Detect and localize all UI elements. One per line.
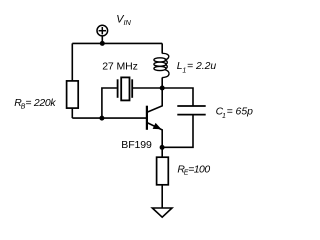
wire crystal right to mid rail: [133, 87, 162, 89]
supply symbol V+ circle: [97, 25, 108, 36]
svg-text:27 MHz: 27 MHz: [102, 61, 138, 73]
wire RE bottom lead: [161, 185, 163, 208]
node junction dot at supply on top rail: [100, 41, 105, 46]
svg-text:BF199: BF199: [121, 139, 152, 151]
label VIN: [116, 13, 131, 27]
transistor Q1 base bar: [146, 106, 148, 130]
wire base rail: [72, 117, 147, 119]
label RB value: [14, 98, 56, 110]
label RE value: [177, 164, 210, 176]
crystal X1 right plate: [131, 79, 133, 98]
node junction dot base: [99, 116, 104, 121]
wire mid rail to capacitor: [162, 88, 193, 106]
transistor Q1 emitter diagonal with arrow: [148, 123, 163, 147]
transistor Q1 collector diagonal: [148, 88, 163, 112]
label L1 value: [177, 61, 217, 74]
inductor L1 bottom lead: [161, 78, 163, 89]
inductor L1 top lead: [161, 43, 163, 53]
wire capacitor bottom to emitter node: [162, 115, 193, 148]
crystal X1 body rectangle: [121, 77, 129, 100]
wire RB bottom lead: [71, 108, 73, 118]
wire left vertical to RB: [71, 43, 73, 81]
supply symbol V+ lead: [101, 36, 103, 43]
svg-text:IN: IN: [124, 18, 132, 27]
supply symbol plus sign: [99, 27, 106, 34]
capacitor C1 top plate: [177, 105, 205, 107]
ground symbol: [152, 208, 172, 217]
wire emitter node to RE: [161, 147, 163, 157]
node junction dot emitter: [160, 145, 165, 150]
svg-text:= 220k: = 220k: [25, 98, 56, 109]
resistor R1 body (RB): [67, 81, 79, 108]
svg-text:= 2.2u: = 2.2u: [187, 61, 216, 72]
label C1 value: [216, 107, 254, 121]
svg-text:=100: =100: [188, 164, 210, 175]
svg-text:1: 1: [222, 113, 226, 120]
wire top rail: [72, 42, 162, 44]
node junction dot collector/inductor: [160, 86, 165, 91]
capacitor C1 bottom plate: [177, 114, 205, 116]
svg-text:= 65p: = 65p: [227, 107, 254, 118]
svg-text:1: 1: [182, 67, 186, 74]
wire base junction up to crystal: [102, 88, 117, 118]
crystal X1 left plate: [117, 79, 119, 98]
inductor L1 coil: [154, 53, 169, 77]
resistor R2 body (RE): [157, 157, 169, 185]
transistor Q1 emitter arrowhead: [153, 123, 162, 129]
